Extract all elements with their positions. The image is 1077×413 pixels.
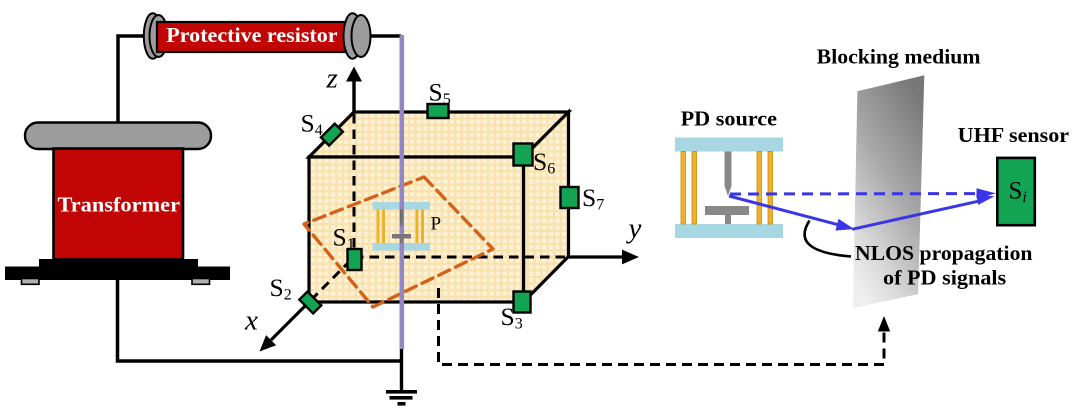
- sensor S2: [299, 292, 321, 314]
- UHF sensor Si: [997, 158, 1035, 225]
- transformer body: [54, 149, 184, 260]
- blue dashed line-of-sight path: [730, 188, 996, 198]
- orange dashed measurement plane: [304, 177, 493, 307]
- protective resistor right cap: [344, 13, 362, 58]
- svg-text:Protective resistor: Protective resistor: [166, 23, 338, 47]
- PD source bottom plate: [675, 224, 783, 238]
- svg-text:P: P: [431, 213, 442, 234]
- svg-text:Blocking medium: Blocking medium: [817, 44, 981, 68]
- ground symbol: [386, 390, 417, 406]
- PD source top plate: [675, 138, 783, 152]
- PD source P : top plate: [373, 202, 431, 210]
- svg-text:NLOS propagation: NLOS propagation: [855, 241, 1033, 265]
- tank front face: [309, 157, 524, 302]
- sensor S3: [514, 292, 531, 313]
- PD source yellow posts: [681, 152, 773, 225]
- arrowhead pointing up at blocking medium: [878, 316, 890, 332]
- protective resistor left cap: [144, 13, 168, 58]
- svg-text:of PD signals: of PD signals: [883, 265, 1006, 289]
- x-axis arrow: [260, 302, 310, 352]
- tank right face: [524, 112, 569, 302]
- svg-text:UHF sensor: UHF sensor: [958, 123, 1069, 147]
- PD source ground electrode: [705, 206, 749, 224]
- dashed signal line from tank bottom to blocking medium arrow: [439, 288, 885, 365]
- hidden back-left vertical edge (dashed): [353, 114, 356, 257]
- svg-text:y: y: [626, 213, 642, 245]
- svg-text:S4: S4: [301, 109, 323, 140]
- sensor S4: [321, 124, 343, 146]
- PD source P : ground electrode: [392, 234, 411, 244]
- transformer left foot: [22, 279, 40, 285]
- svg-text:z: z: [326, 62, 338, 94]
- svg-text:x: x: [244, 305, 258, 337]
- sensor S6: [514, 144, 533, 166]
- sensor S5: [428, 104, 449, 118]
- sensor S7: [561, 187, 579, 208]
- PD source P : bottom plate: [373, 243, 431, 251]
- blue solid NLOS path segment 2: [852, 195, 995, 230]
- svg-text:S2: S2: [270, 273, 292, 304]
- svg-text:PD source: PD source: [681, 107, 777, 131]
- y-axis solid arrow: [569, 250, 640, 265]
- PD source P : needle electrode: [400, 210, 403, 229]
- wire from protective resistor left terminal down to transformer top: [118, 36, 147, 124]
- y-axis dashed portion along hidden back-bottom edge: [354, 256, 569, 259]
- transformer top cap: [25, 123, 211, 150]
- transformer base upper bar: [39, 259, 198, 273]
- protective resistor body: [157, 22, 345, 52]
- blue solid NLOS path segment 1: [729, 196, 854, 231]
- tank top face: [309, 112, 569, 157]
- hidden bottom depth edge from front corner to back corner (dashed): [311, 259, 352, 300]
- PD source needle electrode: [725, 152, 732, 197]
- wire from protective resistor right terminal to bushing conductor: [371, 34, 402, 38]
- ground wire below bushing: [400, 349, 403, 390]
- svg-text:S5: S5: [429, 77, 451, 108]
- svg-text:Transformer: Transformer: [58, 193, 181, 217]
- svg-text:S7: S7: [582, 183, 604, 214]
- PD source P : yellow posts: [377, 210, 425, 244]
- protective resistor right cap front ellipse: [352, 15, 371, 57]
- transformer base lower bar: [5, 267, 230, 281]
- bushing conductor (purple): [399, 35, 404, 349]
- sensor S1: [348, 249, 362, 270]
- blocking medium panel: [853, 75, 924, 308]
- wire from transformer bottom to ground node: [118, 280, 402, 361]
- transformer right foot: [192, 279, 210, 285]
- z-axis arrow: [346, 67, 362, 113]
- leader curve to NLOS label: [805, 221, 851, 257]
